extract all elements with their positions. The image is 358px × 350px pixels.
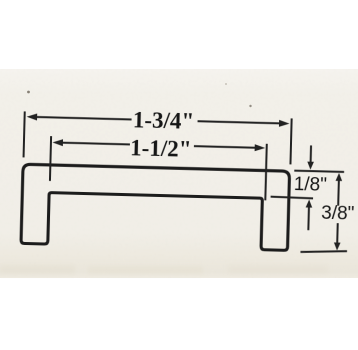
dimension 1/8" top extension line bbox=[294, 171, 344, 172]
channel profile outline (inverted-U cross section) bbox=[21, 164, 290, 250]
scan speck near right dim line bbox=[249, 105, 251, 107]
dimension 1-1/2" line left segment bbox=[60, 143, 129, 145]
dimension 3/8" up arrowhead bbox=[336, 173, 343, 181]
dimension 1-1/2" left arrowhead bbox=[52, 139, 63, 146]
dimension 1/8" bottom extension line bbox=[271, 197, 314, 199]
svg-text:1-1/2": 1-1/2" bbox=[130, 135, 192, 162]
dimension 1/8" down arrowhead bbox=[307, 162, 314, 170]
dimension 1-1/2" right extension line bbox=[265, 144, 266, 201]
dimension 1-1/2" right arrowhead bbox=[255, 144, 266, 151]
dimension 1-3/4" right arrowhead bbox=[279, 120, 290, 127]
dimension 1-3/4" line left segment bbox=[35, 117, 132, 120]
dimension 1/8" lower arrow shaft bbox=[307, 207, 310, 230]
dimension 1-3/4" right extension line bbox=[290, 118, 291, 164]
dimension 1-1/2" left extension line bbox=[50, 136, 51, 181]
dimension 1-3/4" line right segment bbox=[198, 121, 281, 123]
svg-text:3/8": 3/8" bbox=[321, 203, 355, 225]
dimension 1/8" up arrowhead bbox=[306, 199, 313, 207]
scanned paper area bbox=[0, 69, 358, 278]
dimension 1-3/4" left extension line bbox=[24, 111, 25, 157]
dimension 1/8" upper arrow shaft bbox=[310, 145, 312, 162]
scan speck top-middle bbox=[225, 83, 227, 85]
dimension 3/8" down arrowhead bbox=[334, 242, 341, 250]
dimension 1-3/4" left arrowhead bbox=[27, 113, 38, 120]
dimension 3/8" bottom extension line bbox=[300, 250, 347, 253]
scan speck top-left bbox=[27, 91, 30, 94]
svg-text:1/8": 1/8" bbox=[293, 174, 327, 196]
dimension 3/8" shaft lower segment bbox=[336, 223, 339, 243]
dimension 1-1/2" line right segment bbox=[194, 146, 257, 148]
dimension 3/8" shaft upper segment bbox=[337, 181, 340, 206]
scan bottom shadow band bbox=[0, 265, 328, 274]
svg-text:1-3/4": 1-3/4" bbox=[133, 107, 195, 134]
